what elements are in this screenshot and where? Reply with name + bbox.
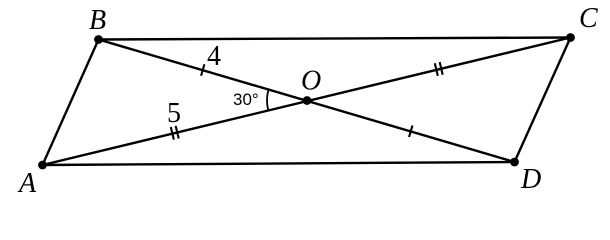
- svg-text:D: D: [520, 164, 541, 195]
- node B dot: [94, 35, 103, 44]
- svg-text:30°: 30°: [233, 90, 259, 109]
- angle arc 30 degrees at O: [267, 89, 269, 110]
- tick mark double on OC: [435, 63, 438, 76]
- tick mark single on OD: [409, 126, 412, 138]
- tick mark double on AO: [171, 127, 174, 140]
- node A dot: [38, 161, 47, 170]
- wire side DA: [43, 162, 515, 165]
- node C dot: [566, 33, 575, 42]
- tick mark single on BO: [201, 64, 204, 76]
- wire side AB: [43, 40, 99, 166]
- node D dot: [510, 158, 519, 167]
- wire diagonal AC: [43, 38, 571, 166]
- svg-text:4: 4: [207, 41, 221, 72]
- node O dot: [303, 96, 312, 105]
- svg-text:B: B: [89, 5, 106, 36]
- svg-text:C: C: [579, 3, 598, 34]
- wire diagonal BD: [99, 40, 515, 163]
- wire side CD: [515, 38, 571, 163]
- svg-text:5: 5: [167, 98, 181, 129]
- svg-text:O: O: [301, 66, 321, 97]
- svg-text:A: A: [17, 168, 37, 198]
- wire side BC: [99, 38, 571, 40]
